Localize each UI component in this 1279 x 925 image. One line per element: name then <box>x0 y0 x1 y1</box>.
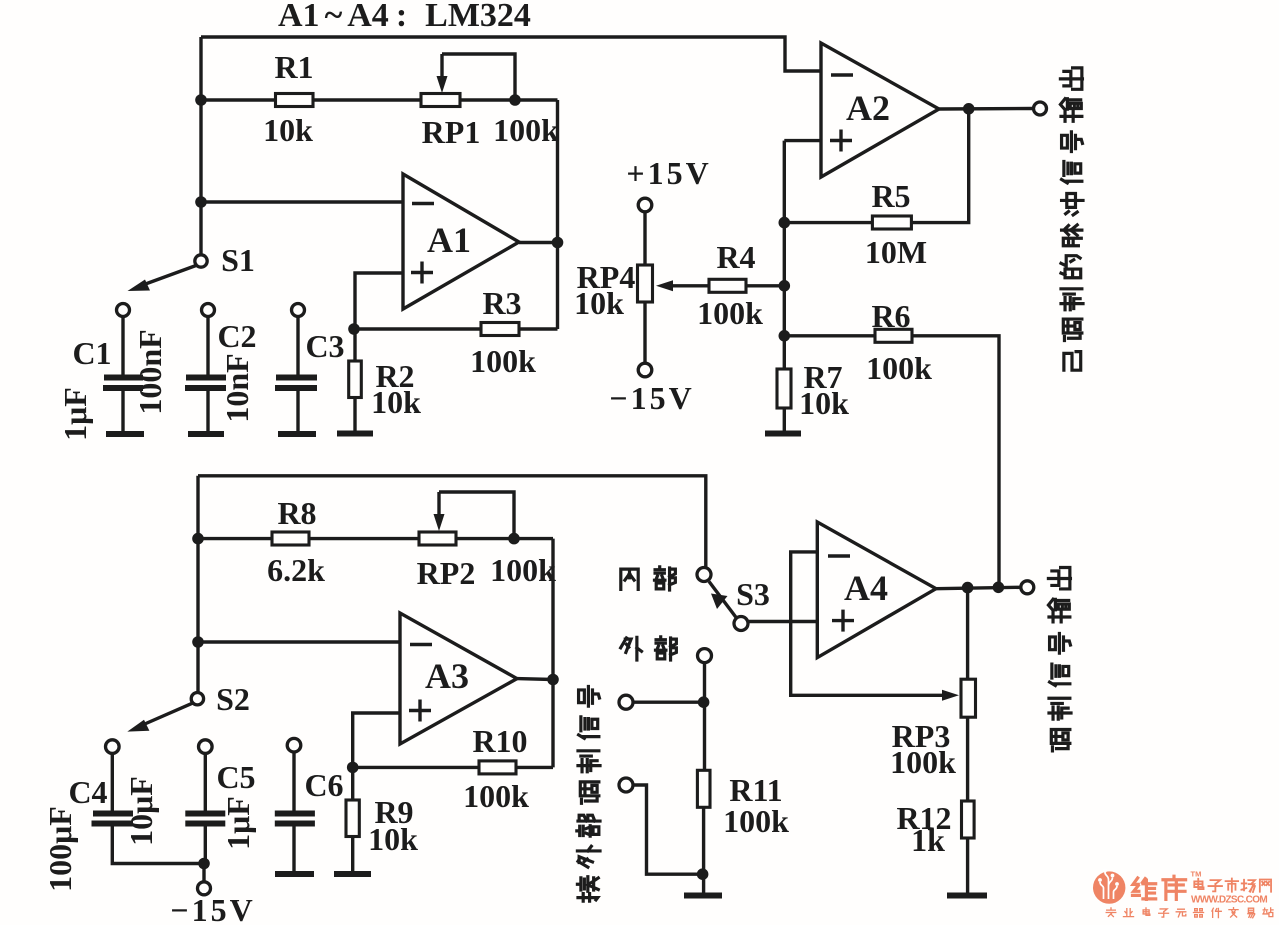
potentiometer RP3 <box>961 588 976 801</box>
svg-text:10k: 10k <box>799 385 849 421</box>
resistor R11 <box>697 770 710 893</box>
svg-text:WWW.DZSC.COM: WWW.DZSC.COM <box>1191 895 1268 906</box>
svg-text:100μF: 100μF <box>42 806 78 892</box>
svg-text:100k: 100k <box>697 295 763 331</box>
net label external <box>621 637 677 660</box>
svg-text:10k: 10k <box>371 384 421 420</box>
potentiometer RP2 <box>419 532 456 545</box>
wire A3 noninverting input <box>353 713 400 767</box>
wire A3 output <box>517 677 553 681</box>
node A3 output <box>547 674 559 686</box>
resistor R1 <box>276 94 314 107</box>
svg-text:100k: 100k <box>723 803 789 839</box>
wire R3 rail <box>354 327 558 330</box>
wiper arrow RP1 <box>437 54 516 100</box>
op-amp A3 <box>400 613 517 744</box>
net label connect external modulation signal (vertical) <box>577 686 600 901</box>
node junction R11 bottom <box>697 868 709 880</box>
wire top rail from node A to A2 inverting input <box>201 37 820 71</box>
op-amp A4 <box>817 522 936 658</box>
wiper arrow RP2 <box>434 492 515 539</box>
terminal -15V lower <box>198 882 211 895</box>
resistor R12 <box>962 801 975 893</box>
svg-text:RP1: RP1 <box>422 114 481 150</box>
terminal +15V <box>638 198 652 212</box>
wire inverting input A1 <box>201 200 403 203</box>
svg-text:TM: TM <box>1191 870 1202 879</box>
svg-text:R4: R4 <box>716 239 755 275</box>
watermark site name <box>1194 878 1271 892</box>
svg-text:C3: C3 <box>305 328 344 364</box>
capacitor C4 <box>92 740 205 864</box>
svg-text:10nF: 10nF <box>219 353 255 422</box>
op-amp A2 <box>821 43 939 177</box>
node junction RP1 right <box>509 94 521 106</box>
ground C6 <box>275 871 314 877</box>
terminal signal input lower <box>619 778 633 792</box>
op-amp A1 <box>403 174 519 309</box>
node junction inverting A3 <box>192 636 204 648</box>
ground R11 <box>684 893 722 899</box>
resistor R10 <box>353 761 553 774</box>
wire A4 output <box>936 587 1021 588</box>
svg-text:R3: R3 <box>482 285 521 321</box>
ground C3 <box>278 431 316 437</box>
ground R7 <box>765 431 801 437</box>
wire right vertical A3 feedback <box>551 539 554 768</box>
svg-text:C4: C4 <box>68 774 107 810</box>
terminal pulse output <box>1034 102 1047 115</box>
svg-text:10k: 10k <box>263 112 313 148</box>
switch S1 <box>128 255 208 291</box>
resistor R2 <box>349 329 362 431</box>
node junction R9 top <box>347 762 359 774</box>
capacitor C3 <box>275 304 317 432</box>
terminal signal input upper <box>619 695 633 709</box>
watermark brand name <box>1132 876 1185 899</box>
wire A2 noninverting input <box>784 139 821 142</box>
svg-text:100k: 100k <box>890 744 956 780</box>
wire left vertical upper <box>199 37 202 255</box>
svg-text:R6: R6 <box>871 298 910 334</box>
net label pulse signal output (vertical) <box>1060 68 1083 370</box>
node A1 output <box>552 237 564 249</box>
capacitor C2 <box>185 304 226 432</box>
wire R8/RP2 rail <box>198 537 553 540</box>
svg-text:C1: C1 <box>72 335 111 371</box>
node junction R2 top <box>348 323 360 335</box>
wire A1 output <box>519 241 558 244</box>
svg-text:A1~A4:LM324: A1~A4:LM324 <box>278 0 531 34</box>
wire right vertical A1 feedback <box>556 100 559 329</box>
svg-text:A1: A1 <box>427 220 471 260</box>
terminal modulation output <box>1021 581 1034 594</box>
svg-text:S3: S3 <box>736 576 770 612</box>
svg-text:10M: 10M <box>865 234 927 270</box>
svg-text:C6: C6 <box>304 767 343 803</box>
ground R9 <box>334 871 371 877</box>
svg-text:100k: 100k <box>470 343 536 379</box>
node junction R8 left <box>192 533 204 545</box>
wire R5 feedback <box>784 109 968 223</box>
ground R12 <box>947 893 987 899</box>
resistor R8 <box>272 532 309 545</box>
wire to -15V terminal <box>202 864 205 882</box>
node junction R4 right <box>779 280 791 292</box>
svg-text:1μF: 1μF <box>57 387 93 441</box>
wire A1 noninverting input <box>355 273 403 329</box>
capacitor C6 <box>275 738 315 871</box>
wire R1/RP1 feedback rail <box>201 98 558 101</box>
ground R2 <box>337 431 373 437</box>
svg-text:10μF: 10μF <box>123 776 159 846</box>
capacitor C5 <box>185 740 225 864</box>
node junction inverting <box>195 196 207 208</box>
wire inverting input A3 <box>198 640 400 643</box>
wire terminal to junction <box>633 701 704 704</box>
wire lower top rail to S3 <box>198 476 706 567</box>
svg-text:R8: R8 <box>277 495 316 531</box>
svg-text:−15V: −15V <box>170 892 255 925</box>
capacitor C1 <box>103 304 143 432</box>
node A4 output <box>962 582 974 594</box>
svg-text:10k: 10k <box>574 285 624 321</box>
node junction left R1 <box>195 94 207 106</box>
terminal external input <box>698 649 712 663</box>
node A2 output <box>963 103 975 115</box>
net label internal <box>621 567 676 590</box>
svg-text:C2: C2 <box>217 318 256 354</box>
wire A2 output <box>939 107 1034 111</box>
terminal -15V <box>638 363 652 377</box>
svg-text:A3: A3 <box>425 656 469 696</box>
svg-text:S2: S2 <box>216 681 250 717</box>
svg-text:S1: S1 <box>221 242 255 278</box>
wire A4 inverting bracket to RP3 wiper <box>791 552 959 701</box>
svg-text:RP2: RP2 <box>417 555 476 591</box>
node junction R6 feed <box>993 582 1005 594</box>
svg-text:R5: R5 <box>871 178 910 214</box>
switch S2 <box>127 693 203 732</box>
svg-text:100k: 100k <box>493 112 559 148</box>
switch S3 <box>697 568 748 631</box>
resistor R6 <box>784 329 999 587</box>
resistor R9 <box>346 767 359 871</box>
ground C2 <box>188 431 224 437</box>
watermark slogan <box>1106 908 1273 918</box>
svg-text:A4: A4 <box>844 568 888 608</box>
potentiometer RP1 <box>421 94 460 107</box>
ground C1 <box>106 431 144 437</box>
potentiometer RP4 <box>638 212 653 363</box>
svg-text:100k: 100k <box>463 778 529 814</box>
svg-text:−15V: −15V <box>609 380 694 416</box>
resistor R3 <box>481 323 519 336</box>
svg-text:100k: 100k <box>490 552 556 588</box>
svg-text:R1: R1 <box>274 49 313 85</box>
wire S3 to A4 noninverting <box>748 620 817 623</box>
svg-text:+15V: +15V <box>626 155 711 191</box>
node junction RP2 right <box>508 533 520 545</box>
resistor R7 <box>777 369 791 431</box>
svg-text:10k: 10k <box>368 821 418 857</box>
wire external to R11 <box>703 663 706 771</box>
svg-text:1μF: 1μF <box>220 796 256 850</box>
svg-text:100nF: 100nF <box>132 329 168 414</box>
node junction R6 left <box>779 330 791 342</box>
svg-text:100k: 100k <box>866 350 932 386</box>
watermark logo circle <box>1093 868 1125 903</box>
wire lower terminal to R11 bottom <box>633 785 703 874</box>
svg-text:R10: R10 <box>472 723 527 759</box>
resistor R4 <box>656 279 784 292</box>
node junction C4/C5 <box>198 858 210 870</box>
node junction external <box>698 696 710 708</box>
node junction R5 left <box>779 217 791 229</box>
svg-text:6.2k: 6.2k <box>267 552 325 588</box>
wire left vertical lower <box>196 476 199 693</box>
svg-text:1k: 1k <box>911 822 945 858</box>
resistor R5 <box>872 216 911 229</box>
net label modulation signal output (vertical) <box>1048 567 1071 750</box>
wire center vertical node B <box>783 141 786 369</box>
svg-text:C5: C5 <box>216 759 255 795</box>
svg-text:A2: A2 <box>846 88 890 128</box>
